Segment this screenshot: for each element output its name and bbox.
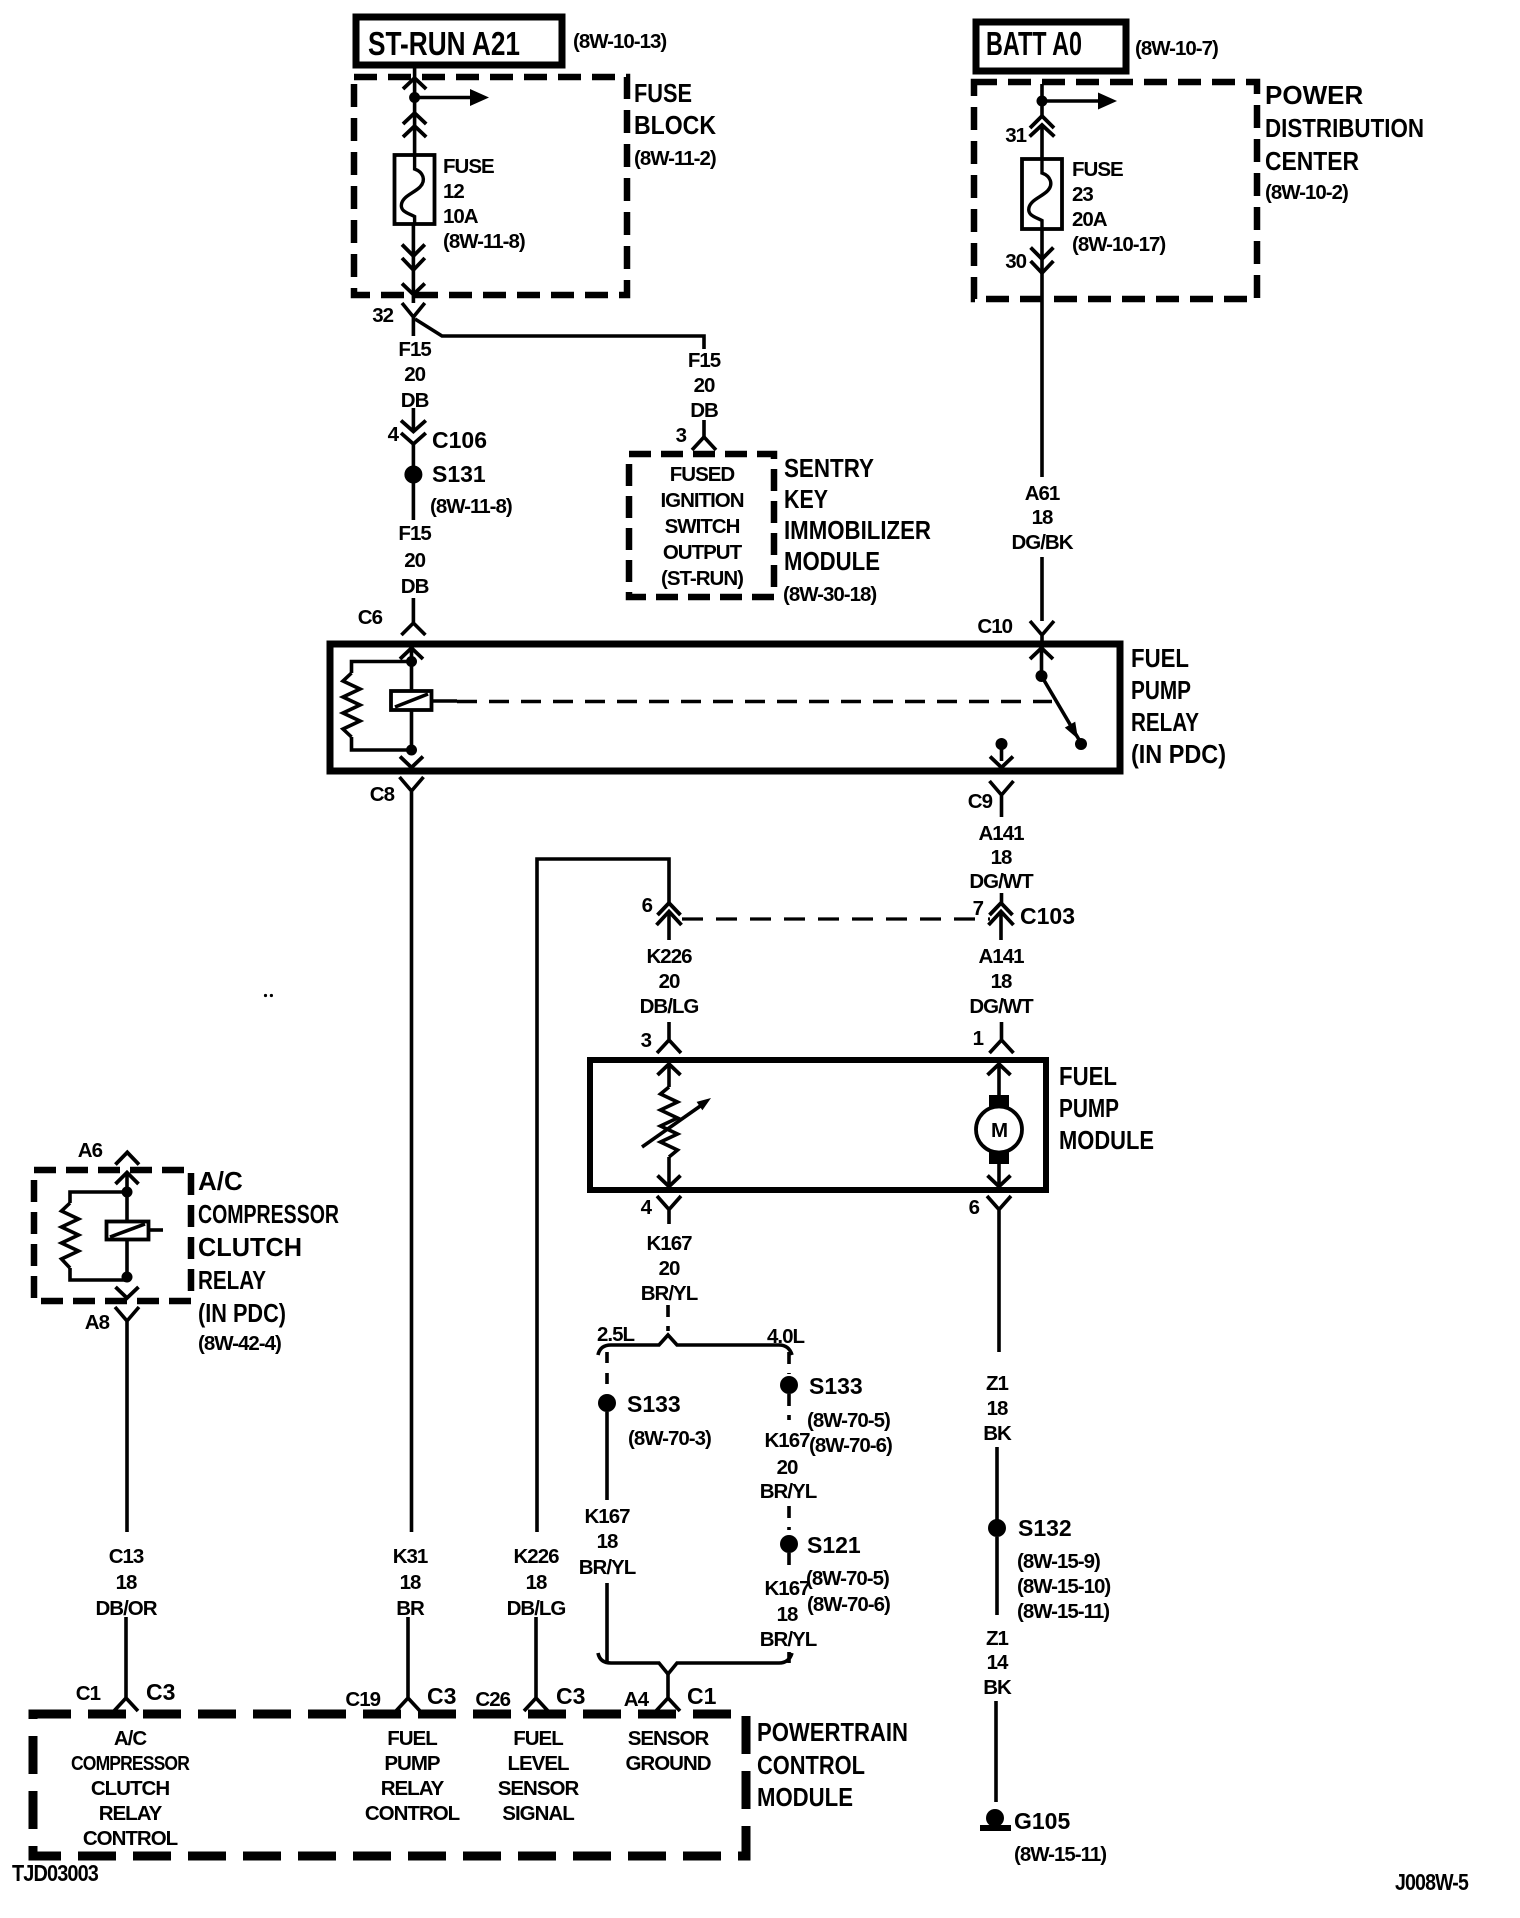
svg-text:(8W-70-6): (8W-70-6) xyxy=(809,1434,892,1457)
wire A141 18 DG/WT lower xyxy=(969,945,1034,1018)
stray scan speck xyxy=(264,994,267,997)
svg-text:(8W-10-13): (8W-10-13) xyxy=(573,30,666,53)
svg-text:A141: A141 xyxy=(978,945,1024,968)
svg-text:18: 18 xyxy=(526,1571,547,1594)
svg-text:S131: S131 xyxy=(432,461,486,487)
chevron at border exit xyxy=(402,284,425,295)
wire S131 down xyxy=(412,483,416,520)
svg-text:A61: A61 xyxy=(1025,482,1060,505)
svg-text:K167: K167 xyxy=(584,1505,630,1528)
wire C13 18 DB/OR xyxy=(125,1340,129,1532)
wire K31 relay control xyxy=(410,813,414,1532)
svg-text:BK: BK xyxy=(983,1676,1012,1699)
svg-text:DG/WT: DG/WT xyxy=(969,870,1034,893)
svg-text:S133: S133 xyxy=(809,1373,863,1399)
svg-text:C13: C13 xyxy=(109,1545,144,1568)
svg-text:CONTROL: CONTROL xyxy=(83,1827,178,1850)
svg-text:CENTER: CENTER xyxy=(1265,146,1359,176)
svg-text:DB: DB xyxy=(690,399,718,422)
svg-text:A141: A141 xyxy=(978,822,1024,845)
svg-text:C1: C1 xyxy=(687,1683,717,1709)
in-line disconnect double chevron xyxy=(403,113,426,137)
svg-text:K167: K167 xyxy=(764,1429,810,1452)
svg-text:PUMP: PUMP xyxy=(384,1752,440,1775)
connector fork pin 1 into fuel pump module xyxy=(990,1022,1014,1053)
relay coil input chevron xyxy=(400,648,423,659)
svg-text:LEVEL: LEVEL xyxy=(507,1752,569,1775)
svg-text:DB: DB xyxy=(401,575,429,598)
svg-text:PUMP: PUMP xyxy=(1059,1093,1119,1123)
wire A/C relay coil xyxy=(125,1173,129,1281)
svg-text:C9: C9 xyxy=(968,790,993,813)
svg-text:MODULE: MODULE xyxy=(1059,1125,1154,1155)
in-line disconnect arrow and fork xyxy=(402,245,425,271)
svg-text:K167: K167 xyxy=(764,1577,810,1600)
svg-text:(8W-15-11): (8W-15-11) xyxy=(1017,1600,1109,1623)
wire 4.0L K167 20 BR/YL xyxy=(787,1394,791,1420)
svg-text:ST-RUN A21: ST-RUN A21 xyxy=(368,25,520,62)
pin 4 chevron out of module xyxy=(658,1176,681,1187)
PCM pin function fuel pump relay control xyxy=(365,1727,460,1825)
svg-text:DB/OR: DB/OR xyxy=(95,1597,157,1620)
A/C compressor clutch relay enclosure xyxy=(34,1166,339,1355)
svg-text:(ST-RUN): (ST-RUN) xyxy=(661,567,743,590)
wire F15 20 DB to C106 xyxy=(412,408,416,431)
svg-text:20: 20 xyxy=(777,1456,798,1479)
svg-text:(8W-10-17): (8W-10-17) xyxy=(1072,233,1165,256)
engine split brace 2.5L / 4.0L xyxy=(597,1323,804,1355)
svg-text:Z1: Z1 xyxy=(986,1372,1009,1395)
svg-text:K167: K167 xyxy=(646,1232,692,1255)
A/C relay coil K2 xyxy=(107,1222,164,1240)
svg-text:18: 18 xyxy=(777,1603,798,1626)
svg-text:SENTRY: SENTRY xyxy=(784,453,874,483)
connector fork A4 into PCM xyxy=(656,1674,680,1711)
wire C106 to S131 xyxy=(412,444,416,466)
svg-text:2.5L: 2.5L xyxy=(597,1323,634,1346)
svg-text:3: 3 xyxy=(676,424,687,447)
svg-text:RELAY: RELAY xyxy=(1131,707,1199,737)
powertrain control module enclosure xyxy=(33,1714,908,1856)
arrow to other circuits xyxy=(1042,93,1117,110)
svg-text:FUEL: FUEL xyxy=(1059,1061,1117,1091)
fuel pump module box xyxy=(590,1060,1154,1190)
svg-text:KEY: KEY xyxy=(784,484,828,514)
svg-text:20: 20 xyxy=(404,549,425,572)
svg-text:FUSE: FUSE xyxy=(443,155,494,178)
svg-text:(IN PDC): (IN PDC) xyxy=(1131,739,1226,769)
wire Z1 18 BK from pump xyxy=(997,1224,1001,1352)
svg-text:C26: C26 xyxy=(475,1688,510,1711)
connector C103 pin 7 fork and arrow xyxy=(989,903,1014,925)
resistor parallel with coil xyxy=(343,662,412,751)
wire 2.5L branch upper xyxy=(605,1352,609,1394)
svg-text:TJD03003: TJD03003 xyxy=(12,1860,98,1886)
svg-text:J008W-5: J008W-5 xyxy=(1395,1869,1469,1895)
svg-text:F15: F15 xyxy=(398,338,431,361)
connector fork pin 3 into fuel pump module xyxy=(657,1022,681,1053)
wire coil top xyxy=(410,648,414,750)
svg-text:(8W-70-5): (8W-70-5) xyxy=(806,1567,889,1590)
wire switch common xyxy=(1040,648,1044,676)
wire Z1 14 BK xyxy=(995,1537,999,1615)
svg-text:BR: BR xyxy=(396,1597,425,1620)
svg-text:C3: C3 xyxy=(556,1683,585,1709)
svg-text:CLUTCH: CLUTCH xyxy=(91,1777,169,1800)
engine merge brace to sensor ground xyxy=(598,1653,792,1674)
svg-text:20: 20 xyxy=(659,970,680,993)
svg-text:IGNITION: IGNITION xyxy=(660,489,743,512)
svg-text:G105: G105 xyxy=(1014,1808,1070,1834)
splice S133 4.0L xyxy=(780,1376,798,1394)
svg-text:C3: C3 xyxy=(427,1683,456,1709)
svg-text:(8W-70-3): (8W-70-3) xyxy=(628,1427,711,1450)
svg-text:FUSE: FUSE xyxy=(634,78,692,108)
PCM pin function fuel level sensor signal xyxy=(498,1727,580,1825)
svg-text:(8W-70-6): (8W-70-6) xyxy=(807,1593,890,1616)
splice S132 xyxy=(988,1519,1006,1537)
svg-text:FUEL: FUEL xyxy=(387,1727,437,1750)
relay switch common chevron xyxy=(1030,648,1053,659)
wire fuse to PDC exit xyxy=(1040,229,1044,299)
svg-text:C3: C3 xyxy=(146,1679,175,1705)
svg-text:(8W-15-10): (8W-15-10) xyxy=(1017,1575,1110,1598)
svg-text:GROUND: GROUND xyxy=(625,1752,710,1775)
wire K226 20 DB/LG labels xyxy=(640,945,699,1018)
fuse 23 20A xyxy=(1022,158,1165,256)
resistor parallel with A/C coil xyxy=(62,1192,128,1280)
svg-text:6: 6 xyxy=(642,894,653,917)
svg-text:BR/YL: BR/YL xyxy=(760,1480,817,1503)
svg-text:(8W-15-9): (8W-15-9) xyxy=(1017,1550,1100,1573)
junction dot coil bottom xyxy=(406,745,417,756)
svg-text:A4: A4 xyxy=(624,1688,650,1711)
connector chevron at fuse block border xyxy=(403,78,426,89)
junction dot coil top xyxy=(406,656,417,667)
sentry key immobilizer module enclosure xyxy=(629,454,774,597)
junction dot bottom xyxy=(122,1272,133,1283)
svg-text:C10: C10 xyxy=(977,615,1012,638)
svg-text:DB: DB xyxy=(401,389,429,412)
connector fork pin 3 into sentry module xyxy=(692,437,716,450)
wire 2.5L branch K167 18 BR/YL xyxy=(605,1412,609,1500)
connector fork C10 into relay xyxy=(1030,621,1054,641)
in-line disconnect arrow and fork xyxy=(1031,248,1054,274)
svg-text:RELAY: RELAY xyxy=(99,1802,163,1825)
splice S133 2.5L xyxy=(598,1394,616,1412)
svg-text:M: M xyxy=(991,1119,1007,1142)
svg-text:C6: C6 xyxy=(358,606,383,629)
svg-text:S133: S133 xyxy=(627,1391,681,1417)
switch arm xyxy=(1042,676,1088,750)
svg-text:12: 12 xyxy=(443,180,464,203)
svg-text:(8W-11-8): (8W-11-8) xyxy=(430,495,512,518)
svg-text:7: 7 xyxy=(973,897,984,920)
svg-text:C1: C1 xyxy=(76,1682,101,1705)
svg-text:BR/YL: BR/YL xyxy=(760,1628,817,1651)
switch output contact dot xyxy=(996,738,1008,750)
svg-text:BR/YL: BR/YL xyxy=(641,1282,698,1305)
svg-text:BATT A0: BATT A0 xyxy=(986,25,1082,62)
svg-text:FUSED: FUSED xyxy=(670,463,735,486)
svg-text:COMPRESSOR: COMPRESSOR xyxy=(71,1752,190,1775)
svg-text:(8W-70-5): (8W-70-5) xyxy=(807,1409,890,1432)
fuse block enclosure xyxy=(354,77,716,295)
splice S121 xyxy=(780,1535,798,1553)
svg-text:(IN PDC): (IN PDC) xyxy=(198,1298,286,1328)
svg-text:14: 14 xyxy=(987,1651,1009,1674)
svg-text:3: 3 xyxy=(641,1029,652,1052)
svg-text:K226: K226 xyxy=(646,945,692,968)
wire fuse to block exit xyxy=(412,224,416,303)
svg-text:DB/LG: DB/LG xyxy=(640,995,699,1018)
svg-text:DB/LG: DB/LG xyxy=(507,1597,566,1620)
svg-text:S132: S132 xyxy=(1018,1515,1072,1541)
svg-text:MODULE: MODULE xyxy=(757,1782,853,1812)
fuse 12 10A xyxy=(395,155,525,253)
svg-text:C19: C19 xyxy=(345,1688,380,1711)
svg-text:20A: 20A xyxy=(1072,208,1108,231)
svg-text:A6: A6 xyxy=(78,1139,103,1162)
connector C106 arrow and fork xyxy=(401,421,426,445)
junction dot switch pivot xyxy=(1036,670,1048,682)
wire A141 18 DG/WT upper xyxy=(1000,893,1004,903)
svg-text:C103: C103 xyxy=(1020,903,1075,929)
svg-text:18: 18 xyxy=(987,1397,1008,1420)
connector fork C9 below relay xyxy=(990,781,1014,817)
wire K167 20 BR/YL below module xyxy=(641,1232,698,1305)
svg-text:F15: F15 xyxy=(398,522,431,545)
svg-text:FUEL: FUEL xyxy=(513,1727,563,1750)
relay U1 fuel pump relay box xyxy=(330,643,1226,771)
pin 3 chevron into module xyxy=(658,1064,681,1075)
connector fork C8 below relay xyxy=(400,777,424,813)
wire K226 from level sensor jog xyxy=(537,859,669,1532)
svg-text:4: 4 xyxy=(641,1196,653,1219)
chevron into A/C relay xyxy=(116,1173,139,1185)
PCM pin function sensor ground xyxy=(625,1727,710,1775)
connector fork A8 xyxy=(115,1307,139,1340)
connector fork C26 into PCM xyxy=(524,1686,548,1711)
svg-text:(8W-10-7): (8W-10-7) xyxy=(1135,37,1218,60)
wire ST-RUN into fuse block xyxy=(413,65,417,155)
svg-text:6: 6 xyxy=(969,1196,980,1219)
svg-text:PUMP: PUMP xyxy=(1131,675,1191,705)
svg-text:IMMOBILIZER: IMMOBILIZER xyxy=(784,515,931,545)
svg-text:(8W-42-4): (8W-42-4) xyxy=(198,1332,281,1355)
svg-text:18: 18 xyxy=(400,1571,421,1594)
svg-text:OUTPUT: OUTPUT xyxy=(663,541,743,564)
svg-text:30: 30 xyxy=(1005,250,1026,273)
svg-text:CLUTCH: CLUTCH xyxy=(198,1232,302,1262)
svg-text:POWERTRAIN: POWERTRAIN xyxy=(757,1717,908,1747)
svg-text:(8W-11-8): (8W-11-8) xyxy=(443,230,525,253)
node BATT A0 feed box xyxy=(976,22,1126,71)
pin 6 chevron out of module xyxy=(988,1176,1011,1187)
dashed connector tie line C103 xyxy=(682,917,990,920)
svg-text:COMPRESSOR: COMPRESSOR xyxy=(198,1199,339,1229)
svg-text:DG/BK: DG/BK xyxy=(1011,531,1073,554)
svg-text:BR/YL: BR/YL xyxy=(579,1556,636,1579)
relay coil output chevron xyxy=(400,757,423,768)
svg-text:20: 20 xyxy=(694,374,715,397)
svg-text:A8: A8 xyxy=(85,1311,110,1334)
svg-text:SENSOR: SENSOR xyxy=(628,1727,710,1750)
svg-text:20: 20 xyxy=(404,363,425,386)
node ST-RUN A21 feed box xyxy=(356,17,562,65)
connector C103 pin 6 fork and arrow xyxy=(657,903,682,925)
wire BATT into PDC xyxy=(1040,84,1044,159)
svg-text:FUEL: FUEL xyxy=(1131,643,1189,673)
relay coil K1 xyxy=(391,691,457,710)
svg-text:A/C: A/C xyxy=(114,1727,148,1750)
svg-text:SWITCH: SWITCH xyxy=(665,515,740,538)
svg-text:F15: F15 xyxy=(688,349,721,372)
connector fork C19 into PCM xyxy=(396,1686,420,1711)
svg-text:4: 4 xyxy=(388,423,400,446)
svg-text:SENSOR: SENSOR xyxy=(498,1777,580,1800)
connector fork C1 into PCM xyxy=(114,1686,138,1711)
svg-text:DG/WT: DG/WT xyxy=(969,995,1034,1018)
svg-text:C106: C106 xyxy=(432,427,487,453)
junction dot top xyxy=(122,1187,133,1198)
svg-text:BK: BK xyxy=(983,1422,1012,1445)
switch output chevron xyxy=(990,757,1013,768)
chevron A6 feed xyxy=(115,1152,139,1164)
svg-text:MODULE: MODULE xyxy=(784,546,880,576)
junction dot xyxy=(1037,96,1048,107)
wire 4.0L K167 18 BR/YL lower xyxy=(760,1567,890,1651)
svg-text:(8W-11-2): (8W-11-2) xyxy=(634,147,716,170)
svg-text:23: 23 xyxy=(1072,183,1093,206)
svg-text:18: 18 xyxy=(991,970,1012,993)
svg-text:31: 31 xyxy=(1005,124,1026,147)
svg-text:A/C: A/C xyxy=(198,1166,243,1196)
svg-text:4.0L: 4.0L xyxy=(767,1325,804,1348)
connector fork pin 4 below module xyxy=(657,1196,681,1224)
svg-text:18: 18 xyxy=(597,1530,618,1553)
dashed actuation line xyxy=(457,700,1052,704)
svg-text:32: 32 xyxy=(372,304,393,327)
svg-text:(8W-15-11): (8W-15-11) xyxy=(1014,1843,1106,1866)
svg-text:RELAY: RELAY xyxy=(381,1777,445,1800)
svg-text:CONTROL: CONTROL xyxy=(365,1802,460,1825)
svg-text:(8W-10-2): (8W-10-2) xyxy=(1265,181,1348,204)
svg-text:K226: K226 xyxy=(513,1545,559,1568)
connector fork C6 into relay xyxy=(401,598,425,635)
wire K226 labels at PCM xyxy=(507,1545,566,1620)
variable resistor fuel level sender xyxy=(642,1087,711,1157)
svg-text:18: 18 xyxy=(116,1571,137,1594)
PCM pin function A/C compressor clutch relay control xyxy=(71,1727,190,1850)
in-line disconnect fork and arrow xyxy=(1030,116,1055,137)
svg-text:20: 20 xyxy=(659,1257,680,1280)
svg-text:S121: S121 xyxy=(807,1532,861,1558)
ground G105 xyxy=(980,1808,1106,1866)
arrow to other circuits xyxy=(415,89,489,106)
chevron out of A/C relay xyxy=(116,1287,139,1298)
connector fork pin 32 xyxy=(402,303,425,336)
svg-text:C8: C8 xyxy=(370,783,395,806)
svg-text:SIGNAL: SIGNAL xyxy=(502,1802,574,1825)
svg-text:(8W-30-18): (8W-30-18) xyxy=(783,583,876,606)
svg-text:10A: 10A xyxy=(443,205,479,228)
svg-text:CONTROL: CONTROL xyxy=(757,1750,865,1780)
wire A61 18 DG/BK xyxy=(1040,299,1044,477)
svg-text:DISTRIBUTION: DISTRIBUTION xyxy=(1265,113,1424,143)
svg-text:18: 18 xyxy=(991,846,1012,869)
wire 4.0L branch upper xyxy=(787,1352,791,1374)
connector fork pin 6 below module xyxy=(987,1196,1011,1224)
svg-text:BLOCK: BLOCK xyxy=(634,110,716,140)
svg-text:K31: K31 xyxy=(393,1545,428,1568)
svg-text:Z1: Z1 xyxy=(986,1627,1009,1650)
svg-text:1: 1 xyxy=(973,1027,984,1050)
wire branch to sentry key module xyxy=(415,319,704,437)
junction dot xyxy=(409,92,420,103)
svg-text:POWER: POWER xyxy=(1265,80,1363,110)
splice S131 xyxy=(404,466,422,484)
svg-text:FUSE: FUSE xyxy=(1072,158,1123,181)
svg-text:RELAY: RELAY xyxy=(198,1265,266,1295)
motor M fuel pump xyxy=(976,1095,1022,1164)
wire contact to C9 xyxy=(1000,744,1004,761)
power distribution center enclosure xyxy=(974,80,1424,299)
svg-text:18: 18 xyxy=(1032,506,1053,529)
pin 1 chevron into module xyxy=(988,1064,1011,1075)
